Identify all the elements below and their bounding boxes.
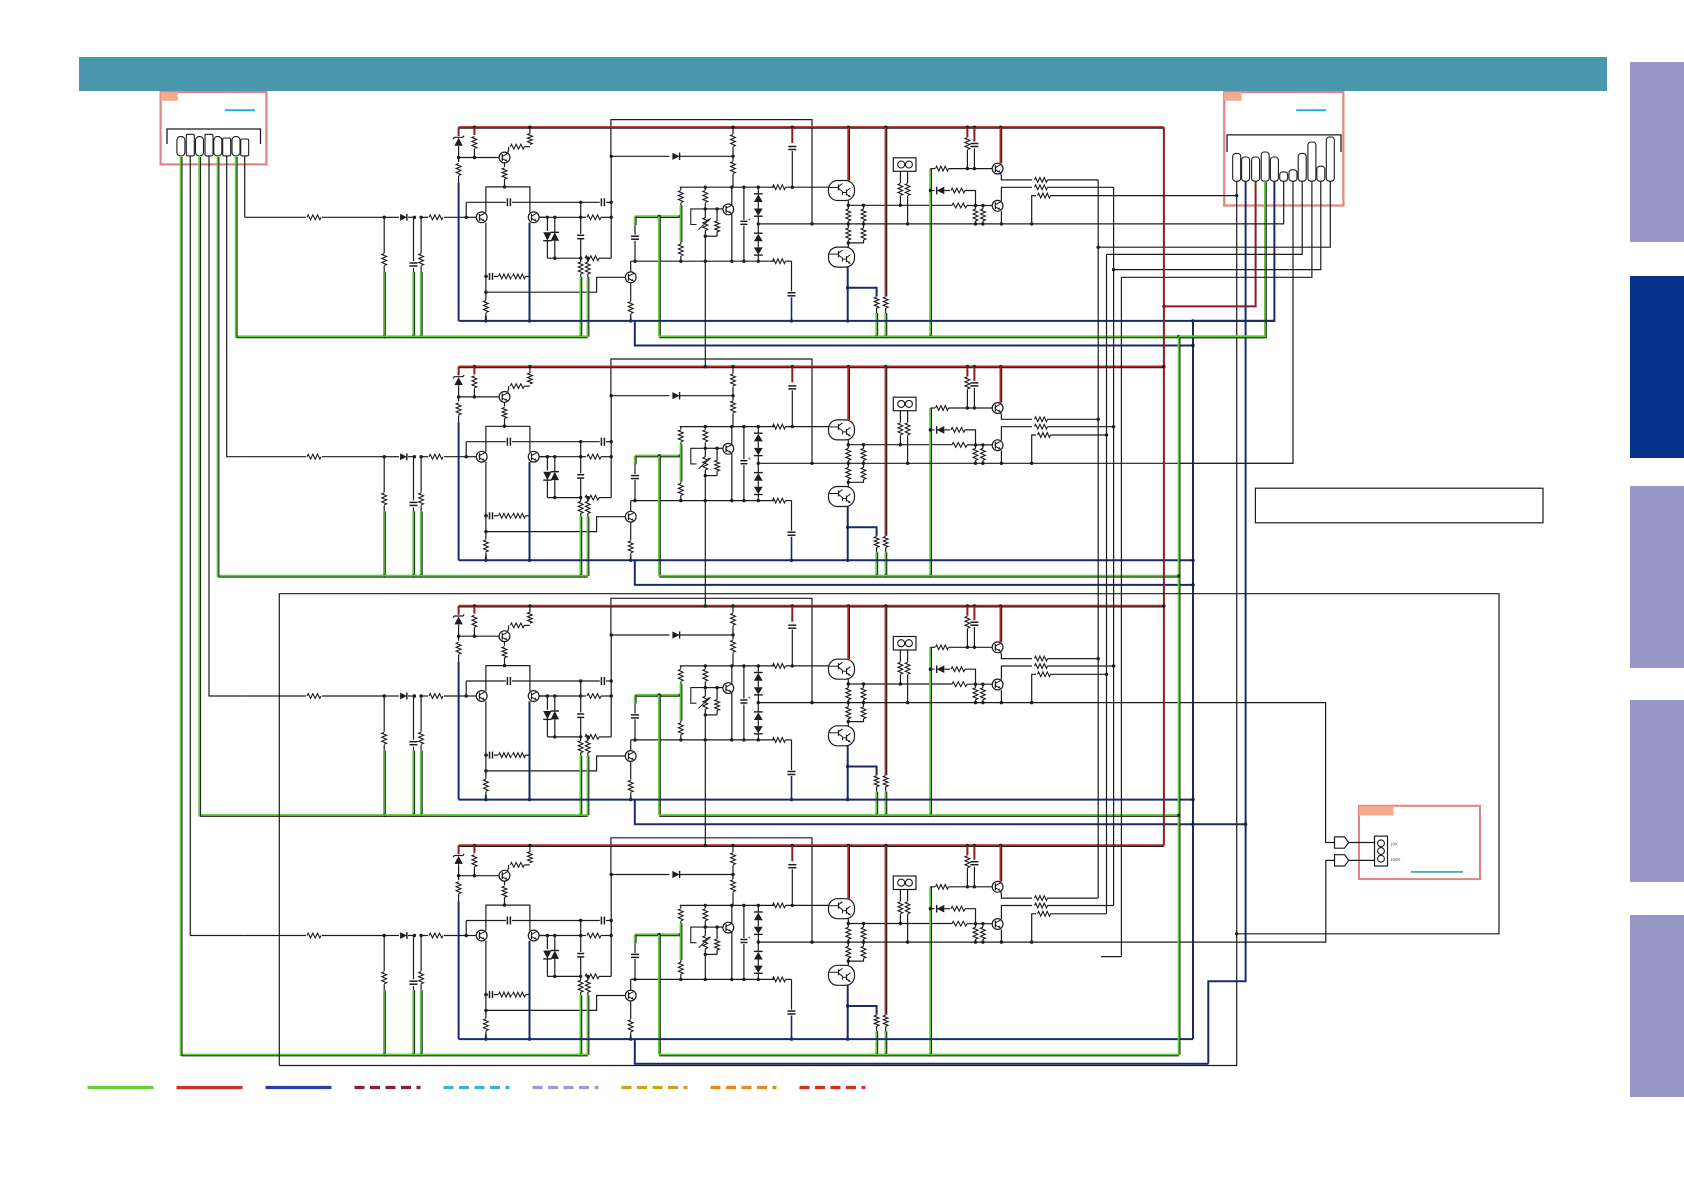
wire block3 navy2 ext xyxy=(1193,823,1246,825)
connector CN1 bracket xyxy=(167,129,261,144)
wire output bus v3 xyxy=(1113,187,1115,905)
svg-text:10K: 10K xyxy=(1390,842,1398,847)
wire block4 navy2 ext xyxy=(1193,1063,1208,1065)
svg-text:100K: 100K xyxy=(1390,857,1401,862)
wire CN2 pin8 xyxy=(1107,181,1303,254)
wire CN2 pin2 (navy) xyxy=(1208,181,1245,1064)
connector CN2 box xyxy=(1224,92,1343,205)
label box xyxy=(1255,488,1543,523)
wire CN1 pin4 xyxy=(209,156,245,696)
wire CN3 pinB xyxy=(1349,859,1375,861)
wire red supply vertical xyxy=(1163,127,1165,845)
wire output bus v4 xyxy=(1120,277,1122,956)
connector CN1 pins xyxy=(177,137,185,156)
wire CN2 pin5 (navy) xyxy=(1193,181,1274,321)
wire navy vertical xyxy=(1192,321,1194,1039)
wire CN2 pin3 (red) xyxy=(1164,181,1256,306)
wire CN2 pin7 xyxy=(1180,181,1293,463)
wire block1 green ext xyxy=(1179,335,1265,337)
wire CN2 pin1 xyxy=(279,181,1236,1065)
outline box xyxy=(279,594,1499,1066)
connector CN3 pins xyxy=(1335,837,1349,848)
wire CN2 pin4 (green) xyxy=(1179,181,1265,336)
wire supply daisy 3 xyxy=(704,740,706,846)
wire block2 emitter ext xyxy=(1180,462,1293,464)
connector CN1 box xyxy=(161,92,267,164)
wire CN1 pin6 xyxy=(227,156,245,457)
wire CN2 pin6 xyxy=(1180,181,1284,224)
wire CN1 pin3 (green) xyxy=(200,156,385,815)
nav tabs xyxy=(1630,62,1684,242)
wire CN1 pin2 xyxy=(190,156,244,936)
wire output bus v2 xyxy=(1106,254,1108,913)
wire CN2 pin10 xyxy=(1114,181,1321,269)
wire green vertical xyxy=(1178,337,1180,1055)
wire CN2 pin11 xyxy=(1098,181,1330,247)
connector CN2 pins xyxy=(1233,153,1241,181)
wire supply daisy 1 xyxy=(704,261,706,366)
wire CN2 pin9 xyxy=(1121,181,1312,277)
wire CN1 pin7 (green) xyxy=(236,156,384,337)
wire CN1 pin8 xyxy=(244,156,246,217)
wire CN3 pinA xyxy=(1349,842,1375,844)
connector CN2 bracket xyxy=(1227,135,1341,152)
wire supply daisy 2 xyxy=(704,501,706,606)
header bar xyxy=(79,57,1607,91)
wire block1 navy ext xyxy=(1193,320,1274,322)
wire output bus v1 xyxy=(1097,180,1099,898)
connector CN3 box xyxy=(1359,806,1480,879)
wire CN1 pin1 (green) xyxy=(181,156,384,1055)
legend xyxy=(88,1086,154,1089)
wire block3 emitter ext xyxy=(1180,703,1335,843)
wire block4 emitter ext xyxy=(1180,860,1335,942)
wire block1 line3 ext xyxy=(1107,195,1237,197)
wire CN1 pin5 (green) xyxy=(218,156,384,576)
